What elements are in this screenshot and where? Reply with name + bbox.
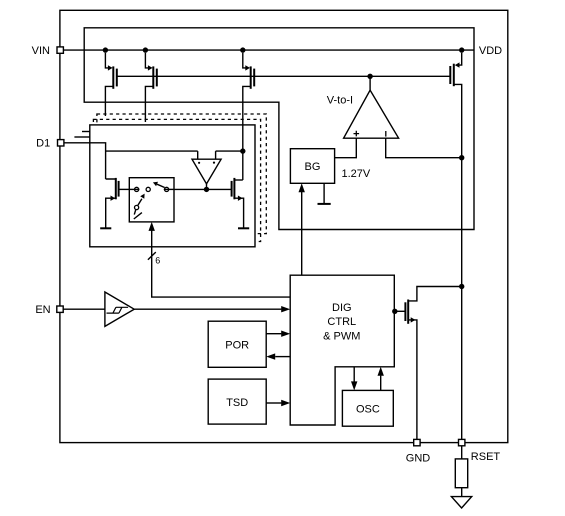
svg-text:VDD: VDD — [479, 45, 502, 57]
svg-text:POR: POR — [225, 339, 249, 351]
svg-text:VIN: VIN — [32, 45, 50, 57]
svg-text:EN: EN — [35, 304, 50, 316]
svg-text:BG: BG — [305, 161, 321, 173]
svg-text:& PWM: & PWM — [323, 330, 360, 342]
svg-text:V-to-I: V-to-I — [327, 95, 353, 107]
svg-text:OSC: OSC — [356, 404, 380, 416]
svg-text:TSD: TSD — [226, 397, 248, 409]
svg-text:D1: D1 — [36, 138, 50, 150]
svg-text:RSET: RSET — [471, 451, 501, 463]
svg-text:GND: GND — [406, 452, 431, 464]
svg-text:1.27V: 1.27V — [342, 168, 371, 180]
svg-text:CTRL: CTRL — [327, 316, 356, 328]
svg-text:6: 6 — [155, 256, 160, 266]
svg-text:DIG: DIG — [332, 302, 352, 314]
